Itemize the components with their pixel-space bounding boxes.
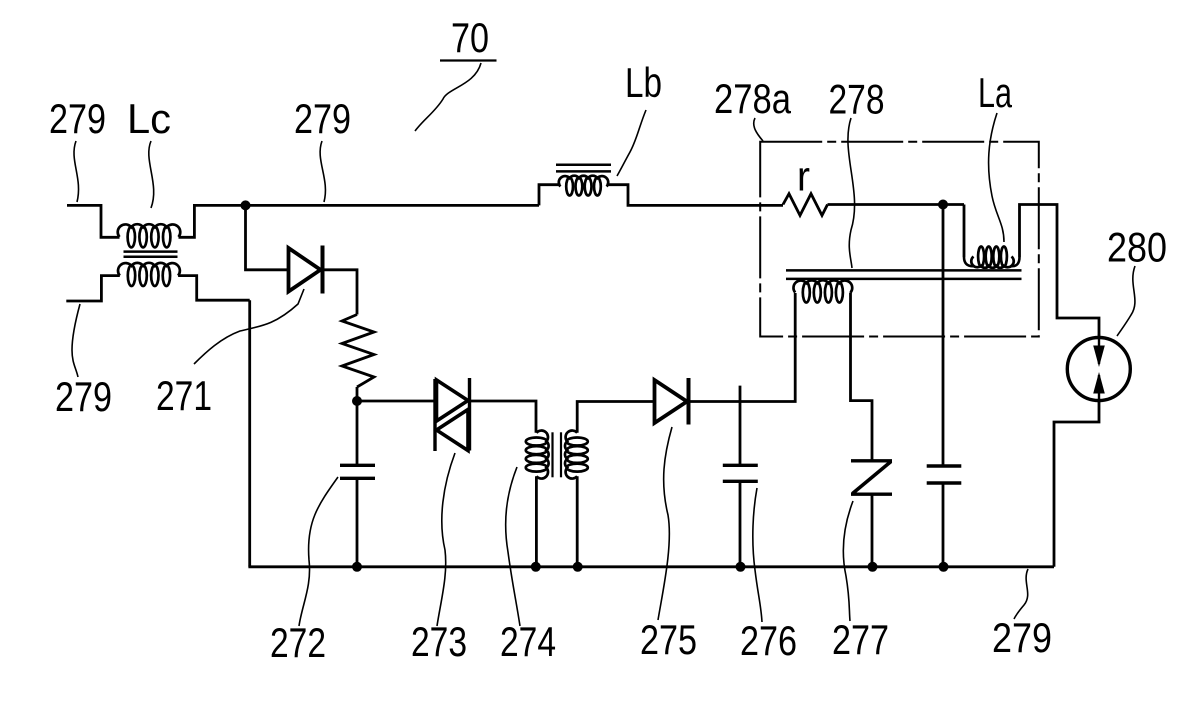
transformer T274 secondary winding — [567, 438, 588, 446]
wire capacitor to bottom rail — [942, 483, 945, 567]
box 278a dash-dot outline — [760, 142, 1039, 337]
label La — [978, 69, 1012, 116]
label 273 — [411, 618, 467, 665]
transformer T274 core — [551, 432, 553, 477]
leader 70 — [415, 63, 481, 131]
lamp 280 top arrow — [1098, 334, 1100, 364]
inductor Lb core — [556, 164, 611, 167]
junction dot C272 on rail — [352, 562, 362, 572]
label 277 — [832, 616, 889, 663]
label 278 — [829, 76, 885, 123]
resistor below 271 zigzag — [342, 315, 374, 388]
wire Lb raised section right — [607, 185, 783, 206]
transformer T278 core — [786, 269, 1022, 272]
inductor Lc lower winding — [128, 265, 135, 286]
diode D275 triangle — [655, 380, 688, 423]
transformer T278 primary winding — [803, 283, 810, 303]
label 272 — [270, 619, 326, 666]
capacitor C276 top lead with overshoot — [739, 386, 742, 466]
leader 272 — [299, 477, 338, 626]
junction dot T274 secondary on rail — [573, 562, 583, 572]
capacitor C272 plates — [340, 464, 375, 467]
wire Lc lower-right to left rail — [178, 276, 250, 301]
leader 277 — [843, 501, 853, 621]
wire triac to transformer 274 primary — [470, 401, 537, 433]
wire capacitor 272 to bottom rail — [356, 478, 359, 567]
inductor Lc upper winding — [128, 227, 135, 248]
wire resistor r to node B — [828, 203, 944, 206]
leader 279 upper-left — [74, 141, 79, 202]
junction dot on rail — [939, 562, 949, 572]
junction dot C276 on rail — [736, 562, 746, 572]
label 279 upper-mid — [294, 95, 351, 142]
wire resistor to node C — [356, 387, 359, 401]
wire top-left input (upper terminal 279) — [67, 205, 120, 237]
capacitor C276 plates — [723, 464, 758, 467]
leader Lc — [149, 141, 154, 208]
label 274 — [500, 618, 556, 665]
varistor 277 top bar — [851, 459, 892, 462]
svg-text:272: 272 — [270, 619, 326, 666]
capacitor under box plates — [927, 464, 962, 467]
varistor 277 bottom bar — [851, 493, 892, 496]
svg-text:275: 275 — [640, 616, 697, 663]
svg-text:277: 277 — [832, 616, 889, 663]
junction dot 277 on rail — [868, 562, 878, 572]
triac Q273 upper triangle — [437, 380, 469, 421]
wire diode 275 to 278 primary left leg — [689, 293, 796, 402]
wire La right leg up and out — [1020, 205, 1100, 338]
lamp 280 circle — [1067, 338, 1130, 401]
wire top rail node A to Lb — [246, 204, 540, 207]
leader 273 — [437, 453, 455, 626]
wire node A down to diode 271 — [246, 205, 289, 269]
node B junction dot — [938, 200, 948, 210]
label 271 — [156, 372, 212, 419]
label 275 — [640, 616, 697, 663]
wire La winding entry arcs — [964, 257, 974, 266]
triac Q273 right bar — [468, 378, 471, 451]
svg-text:279: 279 — [55, 373, 112, 420]
varistor 277 diagonal — [853, 462, 892, 494]
leader La — [989, 113, 1004, 242]
svg-text:279: 279 — [294, 95, 351, 142]
wire left rail down — [248, 300, 251, 567]
label Lc — [127, 95, 171, 142]
svg-text:279: 279 — [992, 614, 1052, 661]
leader 279 lower-right — [1014, 569, 1028, 619]
svg-text:La: La — [978, 69, 1012, 116]
label r — [797, 153, 810, 200]
svg-text:70: 70 — [451, 14, 489, 61]
wire lamp return to bottom rail — [1054, 401, 1099, 567]
leader Lb — [617, 110, 646, 176]
inductor Lb winding — [566, 178, 573, 196]
leader 278 — [848, 118, 855, 268]
label 280 — [1107, 224, 1167, 271]
svg-text:276: 276 — [740, 617, 797, 664]
triac Q273 left bar — [433, 379, 436, 451]
transformer T274 primary winding — [526, 438, 547, 446]
svg-text:278a: 278a — [714, 75, 792, 122]
leader 276 — [753, 488, 762, 622]
wire La left leg — [963, 205, 966, 258]
leader 275 — [658, 427, 672, 620]
label 279 lower-right — [992, 614, 1052, 661]
svg-text:271: 271 — [156, 372, 212, 419]
wire Lb raised section left — [539, 185, 560, 206]
svg-text:278: 278 — [829, 76, 885, 123]
wire T274 primary to bottom rail — [535, 476, 538, 567]
leader 279 upper-mid — [320, 141, 325, 202]
inductor La winding — [978, 247, 984, 267]
node A junction dot — [241, 200, 251, 210]
diode D271 cathode bar — [321, 246, 325, 294]
svg-text:274: 274 — [500, 618, 556, 665]
diode D275 cathode bar — [687, 378, 691, 425]
wire capacitor 276 to bottom rail — [739, 481, 742, 567]
wire T278 primary right leg down — [851, 293, 873, 461]
inductor Lc core — [124, 250, 178, 253]
wire Lc upper-right to node A — [179, 205, 246, 237]
wire node B down to capacitor — [942, 205, 945, 467]
wire node C down to capacitor 272 — [356, 401, 359, 465]
wire Lc lower-left to lower terminal — [66, 276, 120, 301]
svg-text:279: 279 — [49, 95, 106, 142]
leader 280 — [1117, 266, 1135, 336]
resistor r zigzag — [783, 194, 828, 216]
label 278a — [714, 75, 792, 122]
label 279 lower-left — [55, 373, 112, 420]
wire varistor 277 to bottom rail — [871, 494, 874, 567]
wire T274 secondary to bottom rail — [576, 476, 579, 567]
leader 274 — [506, 467, 520, 626]
wire node C to triac 273 — [357, 400, 435, 403]
svg-text:280: 280 — [1107, 224, 1167, 271]
svg-text:Lc: Lc — [127, 95, 171, 142]
bottom rail wire — [248, 565, 1054, 568]
svg-text:Lb: Lb — [625, 59, 662, 106]
leader 271 — [194, 289, 304, 364]
svg-text:r: r — [797, 153, 810, 200]
wire node B to La left leg — [943, 203, 964, 206]
node C junction dot — [352, 396, 362, 406]
junction dot T274 primary on rail — [531, 562, 541, 572]
label Lb — [625, 59, 662, 106]
svg-text:273: 273 — [411, 618, 467, 665]
wire diode 271 to resistor — [323, 270, 358, 315]
leader 279 lower-left — [72, 304, 80, 377]
label 70 underlined — [451, 14, 489, 61]
label 276 — [740, 617, 797, 664]
wire T274 secondary up to diode 275 — [577, 402, 654, 433]
triac Q273 lower triangle — [437, 410, 469, 451]
leader 278a — [754, 118, 763, 141]
label 279 upper-left — [49, 95, 106, 142]
diode D271 triangle — [289, 248, 321, 292]
lamp 280 bottom arrow — [1098, 375, 1100, 403]
